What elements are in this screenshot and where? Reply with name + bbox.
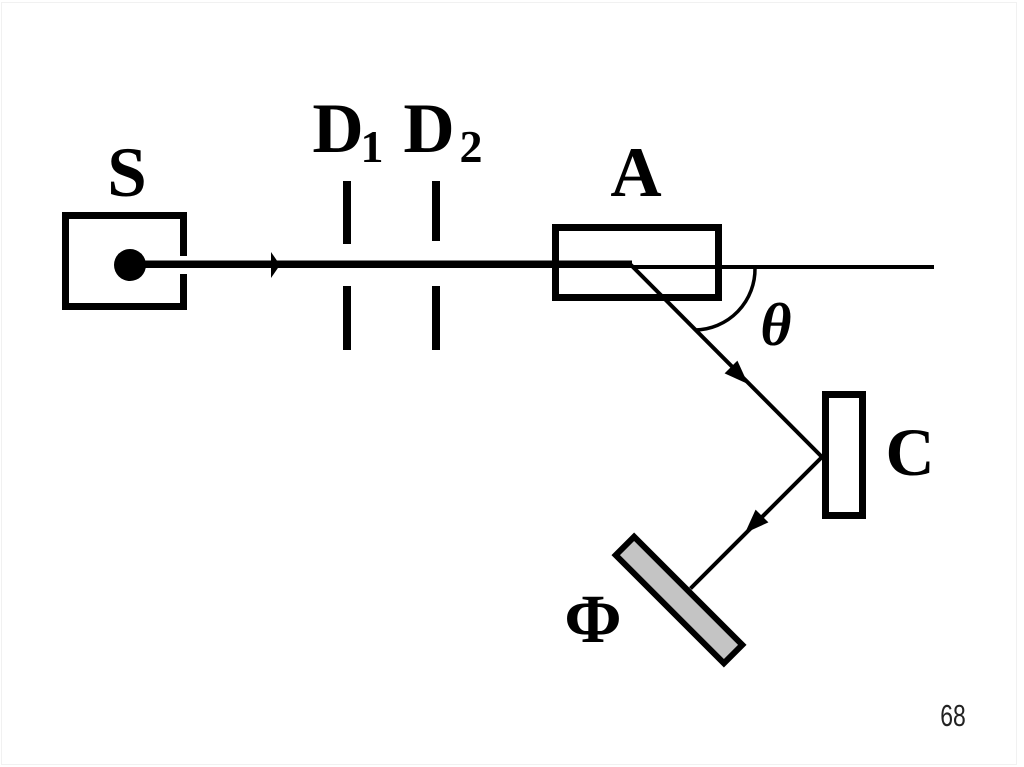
- counter box C: [826, 395, 863, 516]
- page number 68: [940, 698, 965, 733]
- diaphragm D1 bottom: [343, 286, 351, 350]
- svg-text:D: D: [312, 90, 363, 168]
- svg-text:1: 1: [361, 121, 384, 172]
- svg-text:D: D: [403, 90, 454, 168]
- arrowhead on ray C-plate: [745, 510, 768, 533]
- svg-text:C: C: [885, 414, 934, 490]
- thin horizontal reference line: [632, 265, 934, 269]
- diaphragm D2 top: [432, 181, 440, 241]
- thick beam line from S to A: [137, 261, 632, 269]
- source box S: [66, 216, 184, 307]
- angle arc theta: [695, 268, 755, 330]
- svg-text:S: S: [107, 134, 147, 212]
- photo plate Phi: [616, 537, 743, 664]
- diaphragm D2 bottom: [432, 286, 440, 350]
- gap in right wall of S for beam: [175, 256, 189, 274]
- source dot: [114, 249, 146, 281]
- svg-text:68: 68: [940, 698, 965, 733]
- ray C to plate: [691, 457, 823, 589]
- diaphragm D1 top: [343, 181, 351, 244]
- target box A: [556, 228, 719, 298]
- scattered ray A to C: [630, 264, 822, 457]
- svg-text:2: 2: [460, 121, 483, 172]
- small arrowhead on beam: [271, 252, 280, 278]
- svg-text:θ: θ: [760, 292, 791, 358]
- svg-text:A: A: [610, 134, 661, 212]
- svg-text:Φ: Φ: [564, 581, 621, 657]
- arrowhead on ray A-C: [725, 361, 748, 384]
